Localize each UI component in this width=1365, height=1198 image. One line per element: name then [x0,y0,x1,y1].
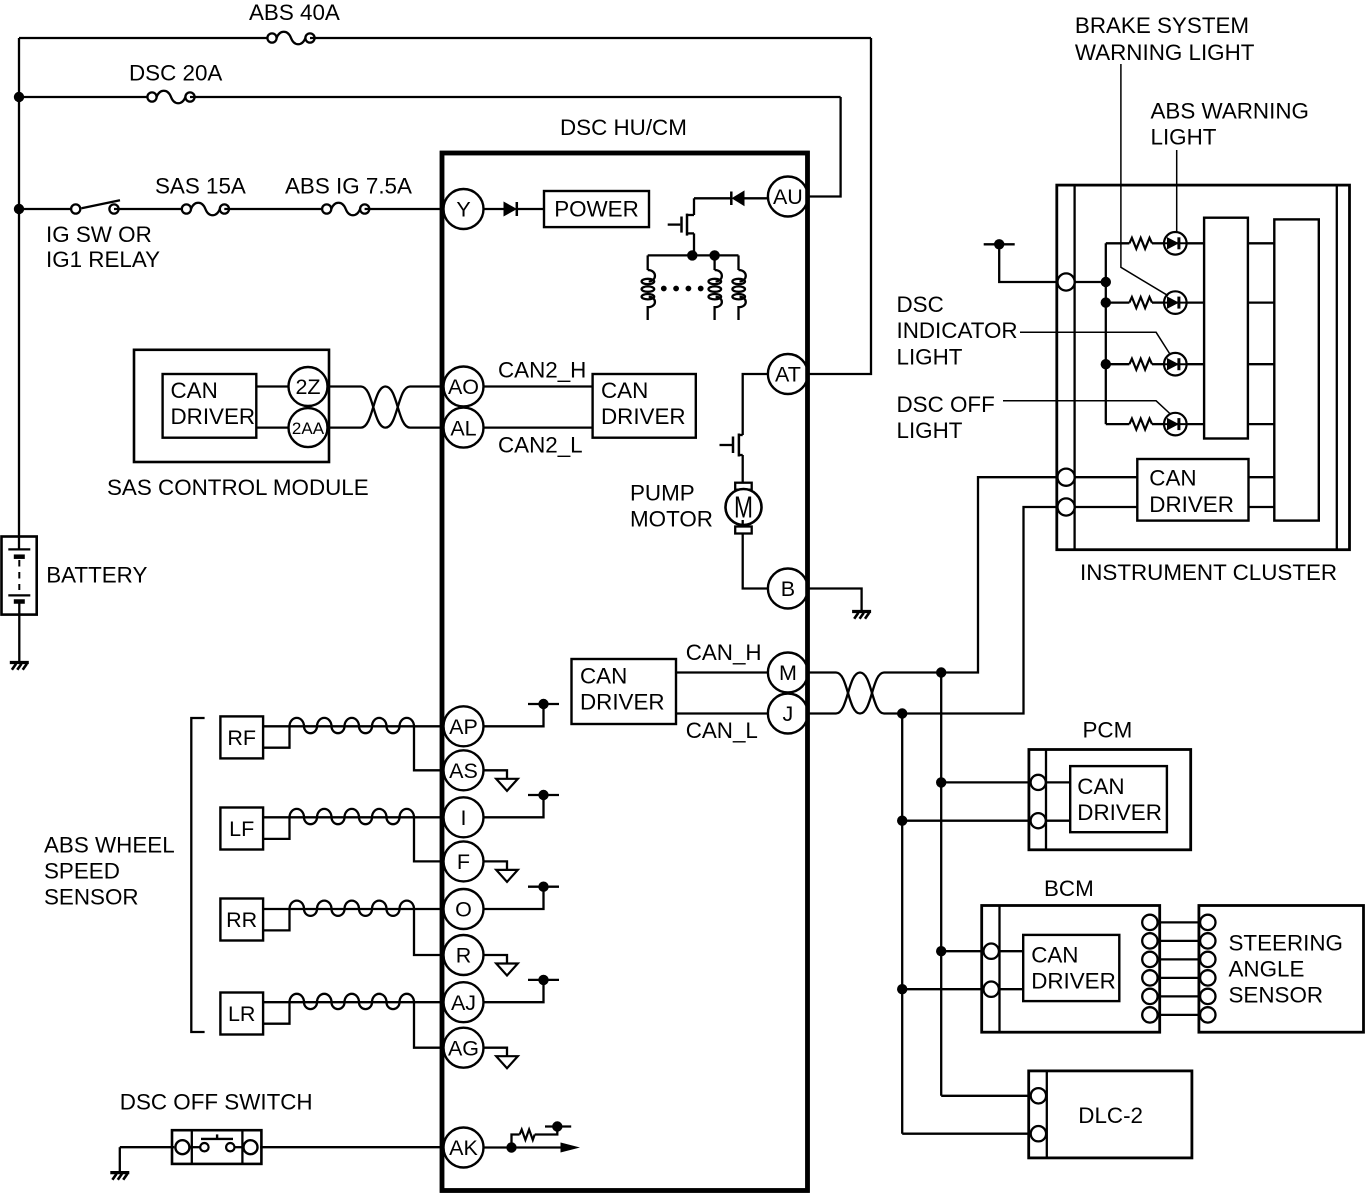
svg-text:ANGLE: ANGLE [1229,956,1305,981]
svg-text:INDICATOR: INDICATOR [897,318,1018,343]
svg-text:O: O [455,898,472,922]
svg-text:DRIVER: DRIVER [580,690,665,715]
svg-text:SPEED: SPEED [44,859,120,884]
svg-text:IG1 RELAY: IG1 RELAY [46,247,160,272]
svg-text:RF: RF [227,726,256,750]
svg-text:ABS 40A: ABS 40A [249,0,340,25]
svg-text:BCM: BCM [1044,876,1094,901]
svg-text:DRIVER: DRIVER [1077,800,1162,825]
svg-text:DLC-2: DLC-2 [1078,1103,1143,1128]
svg-text:LIGHT: LIGHT [897,345,963,370]
svg-text:LIGHT: LIGHT [897,418,963,443]
svg-text:CAN: CAN [1149,466,1196,491]
svg-text:ABS IG 7.5A: ABS IG 7.5A [285,174,412,199]
svg-text:DSC OFF: DSC OFF [897,392,995,417]
svg-text:DSC HU/CM: DSC HU/CM [560,115,687,140]
svg-text:M: M [779,661,797,685]
svg-text:M: M [734,490,753,525]
svg-text:LIGHT: LIGHT [1151,125,1217,150]
svg-text:CAN_H: CAN_H [686,640,762,665]
svg-text:2Z: 2Z [295,375,320,399]
svg-text:CAN2_L: CAN2_L [498,433,583,458]
svg-text:DSC 20A: DSC 20A [129,61,222,86]
svg-text:DRIVER: DRIVER [171,404,256,429]
svg-text:WARNING LIGHT: WARNING LIGHT [1075,40,1255,65]
svg-text:ABS WARNING: ABS WARNING [1151,99,1309,124]
svg-text:B: B [781,577,795,601]
svg-text:STEERING: STEERING [1229,930,1343,955]
svg-text:CAN: CAN [601,378,648,403]
svg-text:AG: AG [448,1036,479,1060]
svg-text:PCM: PCM [1083,718,1133,743]
svg-text:AP: AP [449,715,478,739]
svg-text:BATTERY: BATTERY [46,563,147,588]
svg-text:CAN2_H: CAN2_H [498,358,586,383]
svg-text:DRIVER: DRIVER [1149,492,1234,517]
svg-text:DRIVER: DRIVER [601,404,686,429]
svg-text:CAN: CAN [1031,943,1078,968]
svg-text:DSC: DSC [897,292,944,317]
svg-text:SENSOR: SENSOR [1229,982,1324,1007]
svg-text:DSC OFF SWITCH: DSC OFF SWITCH [120,1090,313,1115]
svg-text:LR: LR [228,1002,255,1026]
svg-text:BRAKE SYSTEM: BRAKE SYSTEM [1075,13,1249,38]
svg-text:I: I [461,806,467,830]
svg-text:AO: AO [448,375,479,399]
svg-text:SAS 15A: SAS 15A [155,174,246,199]
svg-text:PUMP: PUMP [630,481,695,506]
svg-text:CAN: CAN [1077,774,1124,799]
svg-text:CAN_L: CAN_L [686,718,758,743]
svg-text:AL: AL [450,416,476,440]
svg-text:CAN: CAN [171,378,218,403]
svg-text:AK: AK [449,1136,478,1160]
svg-text:R: R [456,944,472,968]
svg-text:2AA: 2AA [292,419,325,438]
svg-text:AS: AS [449,759,478,783]
svg-text:SENSOR: SENSOR [44,885,139,910]
svg-text:AJ: AJ [451,991,476,1015]
svg-text:J: J [783,702,794,726]
svg-text:Y: Y [456,198,470,222]
svg-text:CAN: CAN [580,664,627,689]
svg-text:POWER: POWER [554,197,639,222]
svg-text:F: F [457,850,470,874]
svg-text:IG SW OR: IG SW OR [46,222,152,247]
svg-text:MOTOR: MOTOR [630,507,713,532]
svg-text:DRIVER: DRIVER [1031,969,1116,994]
svg-text:AT: AT [775,363,801,387]
svg-text:ABS WHEEL: ABS WHEEL [44,833,175,858]
svg-text:RR: RR [226,908,257,932]
svg-text:LF: LF [229,817,254,841]
svg-text:INSTRUMENT CLUSTER: INSTRUMENT CLUSTER [1080,560,1337,585]
svg-text:AU: AU [773,185,803,209]
svg-text:SAS CONTROL MODULE: SAS CONTROL MODULE [107,475,369,500]
